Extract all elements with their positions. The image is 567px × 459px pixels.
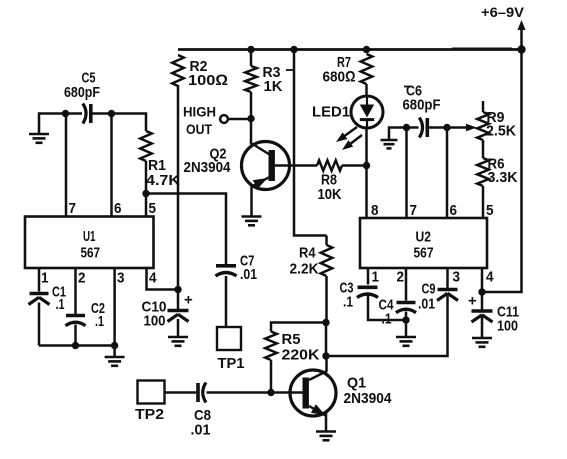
node LED cathode / R8 / U2 pin 8: [363, 162, 370, 169]
wire LED1 cathode to node: [365, 128, 368, 166]
wire U2 pin 2 to C4: [405, 268, 408, 301]
svg-text:U2: U2: [416, 229, 432, 246]
wire U1 pin 7: [65, 114, 68, 217]
wire U2 pin 4: [481, 268, 484, 292]
svg-text:100Ω: 100Ω: [188, 72, 228, 89]
LED LED1: [351, 96, 383, 128]
wire R7 to LED1: [365, 84, 368, 97]
capacitor C6: [407, 126, 419, 129]
node Q1 base / R5 / C8: [267, 389, 274, 396]
svg-text:4.7K: 4.7K: [146, 172, 180, 189]
wire C5 left to ground: [39, 114, 66, 135]
svg-text:.1: .1: [95, 313, 104, 330]
test point TP1: [217, 327, 241, 350]
capacitor C8: [196, 383, 200, 402]
wire R9 to R6: [482, 140, 485, 158]
svg-text:.01: .01: [418, 296, 435, 313]
wire rail branch to R4: [294, 50, 327, 236]
svg-text:8: 8: [371, 202, 379, 219]
svg-text:+6–9V: +6–9V: [481, 4, 525, 20]
svg-text:680Ω: 680Ω: [323, 69, 356, 86]
ground C4: [396, 336, 416, 339]
svg-text:+: +: [468, 293, 477, 310]
wire R6 to U2 pin 5: [482, 186, 485, 218]
wire Q1 collector node to C9: [326, 296, 448, 357]
svg-text:HIGH: HIGH: [183, 105, 216, 120]
svg-text:.1: .1: [56, 296, 65, 313]
wire R2 to U1 pin 4 node: [177, 85, 180, 290]
wire Q2 emitter to ground: [250, 186, 253, 217]
svg-text:.01: .01: [240, 266, 257, 283]
svg-text:2.2K: 2.2K: [290, 261, 319, 278]
svg-text:+: +: [184, 292, 193, 309]
resistor R2: [172, 55, 184, 86]
wire U2 pin 7: [405, 128, 408, 219]
wire Q1 emitter to ground: [325, 412, 328, 432]
wire node to U2 pin 8: [365, 166, 368, 219]
wire U2 pin 1 to C3: [367, 268, 370, 285]
svg-text:2N3904: 2N3904: [184, 159, 231, 176]
node rail / R3: [247, 46, 254, 53]
svg-text:2: 2: [78, 270, 86, 287]
node rail / R7: [363, 46, 370, 53]
resistor R1: [112, 114, 147, 132]
LED light arrow 1: [340, 127, 358, 140]
svg-text:1: 1: [41, 270, 49, 287]
resistor R3: [250, 50, 253, 67]
artifact dash right of R3: [286, 69, 293, 71]
capacitor C10: [177, 290, 180, 310]
wire U1 pin 5: [145, 194, 148, 217]
ground Q2: [242, 215, 262, 218]
wire U1 pin 3 down: [113, 268, 116, 346]
svg-text:100: 100: [144, 313, 166, 330]
transistor Q2: [242, 142, 290, 190]
svg-text:680pF: 680pF: [64, 84, 100, 101]
svg-text:680pF: 680pF: [403, 97, 441, 114]
transistor Q1: [290, 370, 336, 416]
svg-text:6: 6: [450, 202, 458, 219]
svg-text:3: 3: [117, 270, 125, 287]
node R1 / U1 pin 5: [142, 190, 149, 197]
ground C5: [29, 133, 49, 136]
wire +V rail down right side to U2 pin 4: [482, 50, 522, 293]
supply +6-9V arrow: [520, 28, 523, 50]
capacitor C3: [358, 285, 378, 289]
svg-text:LED1: LED1: [312, 104, 350, 121]
capacitor C11: [481, 292, 484, 310]
capacitor C2: [66, 314, 85, 318]
wire TP2 to C8: [165, 391, 197, 394]
test point TP2: [138, 381, 165, 404]
wire Q1 collector up: [325, 356, 328, 372]
resistor R5: [271, 323, 326, 332]
svg-text:.1: .1: [382, 311, 392, 328]
resistor R7: [361, 54, 373, 84]
node C6 right / U2 pin 6: [443, 124, 450, 131]
potentiometer R9: [482, 101, 485, 112]
svg-text:4: 4: [149, 270, 157, 287]
LED light arrow 2: [346, 135, 363, 148]
svg-text:5: 5: [486, 202, 494, 219]
svg-text:TP2: TP2: [135, 406, 164, 423]
svg-text:1: 1: [372, 269, 380, 286]
wire Q2 base to R8: [275, 164, 317, 167]
node C6 left / U2 pin 7: [403, 124, 410, 131]
svg-text:7: 7: [410, 202, 418, 219]
svg-text:R4: R4: [299, 245, 316, 262]
svg-text:TP1: TP1: [218, 355, 245, 372]
svg-text:567: 567: [81, 245, 101, 262]
svg-text:R5: R5: [282, 331, 301, 348]
wire bottom bus U1: [39, 344, 115, 347]
wire C6 left ground tap: [389, 128, 407, 141]
node C5 right / U1 pin 6: [108, 110, 115, 117]
resistor R4: [325, 236, 328, 246]
ground C6: [381, 139, 398, 142]
resistor R6: [477, 158, 489, 186]
node pin 3 / ground: [111, 342, 118, 349]
wire U1 pin 6: [110, 114, 113, 217]
svg-text:2.5K: 2.5K: [486, 123, 516, 140]
node rail corner / +V: [517, 45, 525, 53]
output terminal HIGH OUT: [220, 115, 228, 123]
wire U1 pin 1 to C1: [38, 268, 41, 292]
IC U1 567: [25, 217, 154, 269]
node Q2 collector / R3 / output: [247, 115, 254, 122]
svg-text:3.3K: 3.3K: [488, 169, 518, 186]
node C5 left / U1 pin 7: [62, 110, 69, 117]
wire R3 node to Q2 collector: [250, 119, 253, 145]
svg-text:6: 6: [114, 200, 122, 217]
svg-text:4: 4: [486, 269, 494, 286]
svg-text:Q1: Q1: [347, 375, 366, 392]
ground C11: [472, 337, 492, 340]
node rail / R4 branch: [290, 46, 297, 53]
node R4 / R5: [322, 319, 329, 326]
svg-text:OUT: OUT: [186, 122, 213, 137]
capacitor C4: [397, 301, 416, 305]
node C10 / R2 / U1 pin 4: [174, 286, 181, 293]
svg-text:1K: 1K: [264, 78, 283, 95]
wire U1 pin 2 to C2: [74, 268, 77, 314]
capacitor C1: [30, 292, 49, 296]
ground U1 bus: [113, 346, 116, 358]
svg-text:100: 100: [497, 318, 518, 335]
wire U2 pin 6: [446, 128, 449, 219]
IC U2 567: [360, 218, 487, 268]
wire top supply rail: [178, 48, 522, 51]
node C3 / C4 / ground: [402, 316, 409, 323]
capacitor C5: [66, 112, 83, 115]
svg-text:2: 2: [397, 269, 405, 286]
svg-text:.01: .01: [191, 422, 211, 439]
capacitor C7: [216, 264, 236, 268]
ground Q1: [316, 430, 336, 433]
wire R8 to LED node: [342, 164, 367, 167]
capacitor C9: [438, 288, 458, 292]
svg-text:5: 5: [149, 200, 157, 217]
svg-text:7: 7: [69, 200, 77, 217]
wire pin5 node to C7: [146, 194, 226, 265]
svg-text:220K: 220K: [282, 347, 320, 364]
wire U1 pin 4 to C10 node: [147, 268, 179, 290]
ground C10: [168, 336, 188, 339]
svg-text:10K: 10K: [318, 186, 342, 203]
wire R4 node to Q1 collector node: [325, 323, 328, 357]
node U2 pin 4 / C11: [478, 288, 485, 295]
svg-text:3: 3: [453, 269, 461, 286]
svg-text:U1: U1: [83, 228, 96, 245]
resistor R8: [317, 160, 342, 170]
node C2 bottom: [72, 342, 79, 349]
node Q1 collector / C9 wire: [322, 352, 329, 359]
svg-text:2N3904: 2N3904: [344, 390, 392, 407]
svg-text:.1: .1: [343, 294, 353, 311]
svg-text:567: 567: [414, 245, 434, 262]
